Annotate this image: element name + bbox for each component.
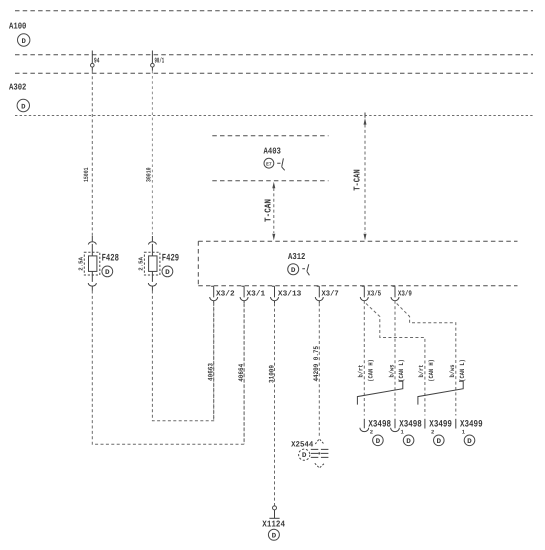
svg-text:2: 2 (431, 428, 434, 435)
svg-text:D: D (437, 438, 442, 446)
svg-text:A312: A312 (288, 252, 305, 262)
svg-text:X3/9: X3/9 (398, 290, 412, 299)
svg-text:X2544: X2544 (291, 441, 313, 450)
svg-text:A403: A403 (264, 147, 281, 157)
svg-text:2.5A: 2.5A (137, 257, 144, 271)
svg-text:(CAN H): (CAN H) (428, 359, 435, 382)
svg-text:(CAN L): (CAN L) (459, 359, 466, 382)
svg-text:D: D (272, 532, 277, 540)
svg-text:2.5A: 2.5A (77, 257, 84, 271)
svg-text:90/1: 90/1 (155, 56, 165, 65)
svg-text:D: D (105, 269, 110, 277)
svg-text:D: D (291, 267, 296, 275)
svg-text:40664: 40664 (238, 364, 246, 382)
svg-text:D: D (22, 38, 26, 46)
svg-text:40663: 40663 (207, 363, 215, 381)
svg-text:D: D (376, 438, 381, 446)
svg-text:F428: F428 (102, 253, 119, 264)
svg-text:D: D (406, 438, 411, 446)
svg-text:T-CAN: T-CAN (353, 169, 363, 191)
svg-text:44209 0.75: 44209 0.75 (313, 346, 321, 382)
svg-text:D: D (21, 104, 25, 112)
svg-text:94: 94 (94, 57, 100, 65)
svg-text:X1124: X1124 (262, 519, 285, 529)
svg-text:A302: A302 (9, 83, 26, 93)
svg-text:2: 2 (370, 428, 373, 435)
svg-text:15001: 15001 (83, 167, 90, 182)
svg-text:b/ws: b/ws (388, 364, 395, 377)
svg-text:X3/13: X3/13 (278, 290, 302, 299)
svg-text:30010: 30010 (145, 167, 152, 182)
svg-text:D: D (165, 269, 170, 277)
svg-text:X3/5: X3/5 (367, 290, 381, 299)
svg-text:F429: F429 (162, 253, 179, 264)
svg-text:b/ws: b/ws (449, 364, 456, 377)
svg-text:E7: E7 (266, 161, 272, 167)
svg-text:31009: 31009 (268, 365, 276, 383)
svg-text:A100: A100 (9, 21, 26, 31)
svg-text:X3/7: X3/7 (322, 290, 340, 299)
svg-text:b/rt: b/rt (418, 364, 425, 377)
svg-text:D: D (302, 452, 307, 460)
svg-text:X3/2: X3/2 (216, 290, 235, 299)
svg-text:(CAN L): (CAN L) (398, 359, 405, 382)
svg-text:b/rt: b/rt (358, 364, 365, 377)
svg-text:T-CAN: T-CAN (263, 199, 273, 222)
svg-text:D: D (467, 438, 472, 446)
svg-text:X3/1: X3/1 (247, 290, 266, 299)
svg-text:(CAN H): (CAN H) (368, 359, 375, 382)
